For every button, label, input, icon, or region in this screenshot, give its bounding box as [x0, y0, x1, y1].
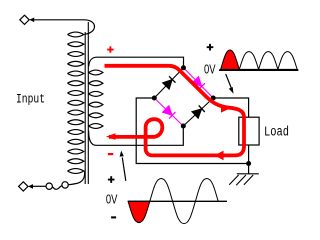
load resistor box — [239, 117, 259, 145]
svg-text:Load: Load — [264, 125, 289, 141]
red negative lobe — [128, 201, 150, 222]
svg-text:0V: 0V — [204, 61, 216, 76]
terminal J2 (input bottom) diamond — [19, 182, 28, 191]
baseline 0V bottom — [128, 200, 227, 202]
baseline 0V top — [219, 69, 298, 71]
outline hump 4 — [278, 52, 297, 70]
red + label (secondary top) — [107, 46, 113, 52]
bridge branch wires — [154, 68, 213, 126]
pointer line to DC+ wire — [226, 74, 233, 91]
red - label (secondary bottom) — [108, 153, 113, 155]
contact circle 2 — [62, 182, 68, 188]
wire secondary top to bridge AC1 — [89, 57, 184, 68]
wire (contact to primary bottom) — [68, 172, 84, 185]
sine continuation — [150, 179, 218, 224]
bottom waveform: AC input — [120, 151, 227, 224]
terminal J1 (input top) diamond — [20, 15, 29, 24]
node DC+ (right) — [211, 96, 216, 101]
ground symbol — [229, 174, 259, 185]
wire DC- return (bottom / left of inner loop) — [136, 98, 248, 164]
wire squiggle between contacts — [52, 186, 62, 190]
red flow arrow A3 (to secondary) — [106, 133, 116, 140]
arrowhead into bottom terminal — [28, 184, 33, 189]
outline hump 2 — [239, 52, 258, 70]
red flow arrow A1 (into load) — [221, 104, 231, 113]
diode D2 (top to right, magenta) — [192, 77, 205, 90]
wire load bottom to junction — [248, 145, 250, 164]
wire right node to load — [213, 98, 248, 117]
top waveform: rectified output — [219, 50, 298, 94]
wire (top terminal to primary) — [34, 20, 95, 34]
black + label (bottom graph) — [108, 176, 115, 183]
branch left-bottom (magenta) — [154, 98, 183, 126]
junction node at ground — [246, 161, 251, 166]
branch top-right (magenta) — [184, 68, 214, 98]
diode D3 (left to bottom, magenta) — [163, 106, 176, 119]
pointer line to secondary bottom — [122, 158, 126, 181]
red hump — [221, 50, 240, 69]
black + label (top graph) — [207, 44, 214, 51]
red flow arrow A2 (return, bottom) — [214, 151, 223, 161]
transformer core — [85, 22, 88, 184]
svg-text:0V: 0V — [106, 192, 118, 207]
contact circle 1 — [46, 183, 52, 189]
arrowhead into top terminal — [29, 18, 34, 23]
node DC- (left) — [152, 96, 157, 101]
wire secondary bottom to bridge AC2 — [89, 126, 184, 145]
black - label (bottom graph) — [111, 216, 116, 218]
transformer T1 secondary winding — [89, 70, 103, 128]
outline hump 3 — [259, 52, 278, 70]
wire junction to ground — [248, 164, 250, 174]
red current path — [105, 66, 245, 156]
transformer T1 primary winding — [68, 32, 84, 173]
branch bottom-right (black) — [183, 98, 213, 126]
wire (bottom terminal to breaker) — [33, 185, 46, 187]
branch left-top (black) — [154, 68, 183, 98]
node AC2 (bottom) — [181, 124, 186, 129]
svg-text:Input: Input — [16, 92, 45, 107]
diode D4 (bottom to right, black) — [192, 105, 205, 118]
node AC1 (top) — [181, 65, 186, 70]
diode D1 (left to top, black) — [163, 76, 176, 89]
